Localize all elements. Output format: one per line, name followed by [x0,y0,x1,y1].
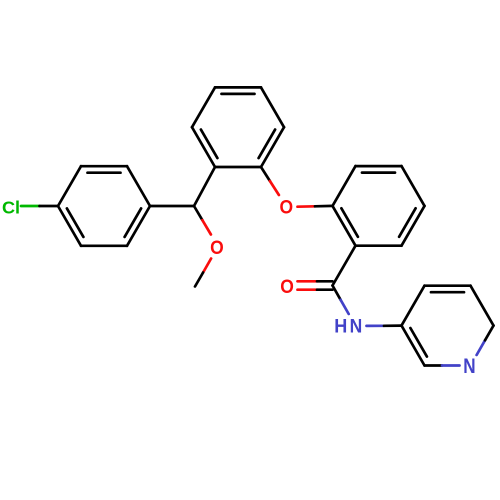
ring D edge N1-C6 [477,340,485,355]
bond C(=O)-NH [333,286,341,300]
ring C inner double [341,208,358,237]
ring D edge C5-C4 [425,284,471,287]
ring D edge C4-C3 [402,286,425,326]
ring A edge C6-C1 [58,206,81,246]
ring B inner double [222,93,255,96]
ring A edge C3-C4 [127,166,150,206]
svg-text:O: O [280,195,294,217]
svg-text:Cl: Cl [2,198,20,218]
svg-text:O: O [210,236,224,258]
ring B edge [192,127,215,167]
ring C edge [356,165,402,168]
ring C edge [333,166,356,206]
ring A edge C5-C6 [81,244,127,247]
ring A inner double C2-C3 [88,171,121,174]
ring C edge [402,206,425,246]
bond Cl-C1 (chlorophenyl) [21,205,40,208]
ring C edge [356,244,402,247]
ring D edge C6-C5 [471,286,494,326]
bond CH-O (methoxy O) [194,206,202,220]
ring B edge [261,87,284,127]
bond CH-ring B [194,167,215,206]
bond O-CH3 [203,259,211,273]
ring A inner double C6-C1 [67,208,84,237]
ring C edge [333,206,356,246]
bond ring C-C(=O) [333,246,356,286]
ring C edge [402,166,425,206]
bond C4-CH(benzylic) [150,205,194,208]
ring A inner double C4-C5 [125,208,142,237]
ring A edge C4-C5 [127,206,150,246]
bond O-ring C [298,205,316,208]
svg-text:H: H [334,316,347,338]
ring D edge C2-N1 [425,364,443,367]
ring B inner double [259,130,276,159]
bond ring B-O (diaryl ether) [261,167,270,181]
ring B edge [261,127,284,167]
ring D inner double C5-C4 [431,291,464,294]
ring C inner double [362,171,395,174]
ring B edge [215,86,261,89]
ring B inner double [201,130,218,159]
carbonyl C=O double bond [298,280,318,283]
svg-text:N: N [463,355,475,378]
ring D edge C3-C2 [402,326,425,366]
ring A edge C1-C2 [58,166,81,206]
ring C inner double [399,208,416,237]
ring D inner double C3-C2 [410,328,427,357]
svg-text:N: N [350,315,363,337]
ring B edge [215,166,261,169]
bond NH-pyridine C3 [367,324,385,327]
ring B edge [192,87,215,127]
svg-text:O: O [280,275,294,297]
ring A edge C2-C3 [81,165,127,168]
